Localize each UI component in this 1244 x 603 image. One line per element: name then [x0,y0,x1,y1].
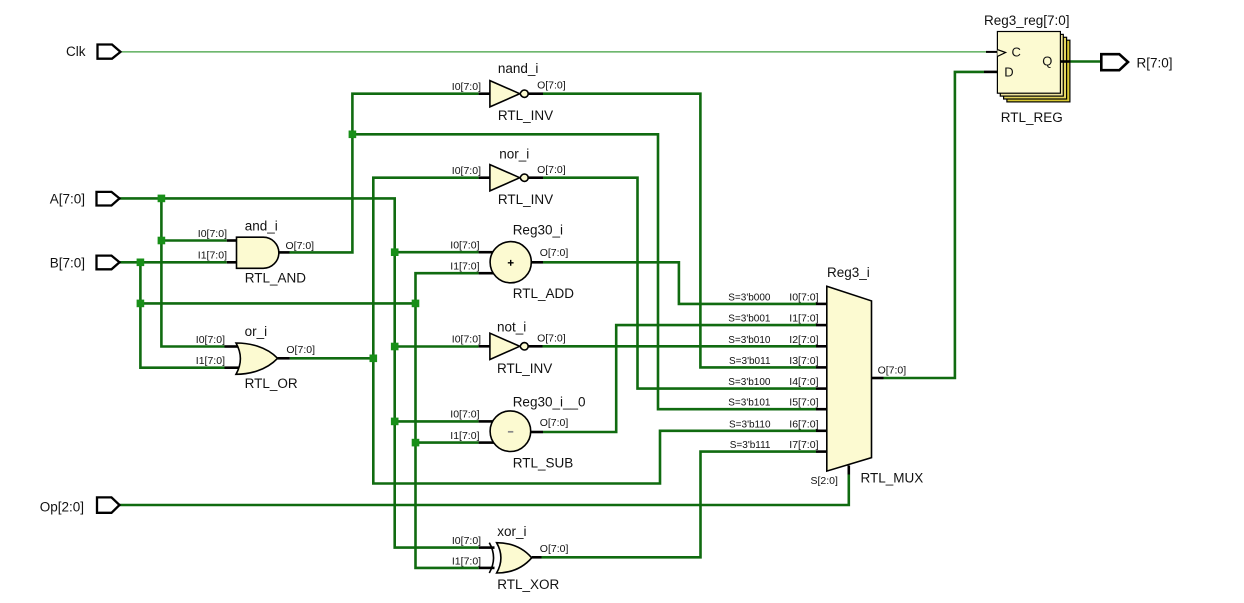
op-amp nand_i RTL_INV triangle [490,81,520,107]
wire register Q to port R [1070,60,1102,63]
svg-text:S=3'b000: S=3'b000 [728,292,771,303]
pin stub xor I0 [479,546,495,549]
svg-text:Reg3_reg[7:0]: Reg3_reg[7:0] [984,13,1070,28]
svg-text:S=3'b101: S=3'b101 [728,398,771,409]
subtractor Reg30_i__0 RTL_SUB circle [490,411,531,452]
svg-text:R[7:0]: R[7:0] [1137,55,1173,70]
svg-text:S=3'b011: S=3'b011 [729,356,771,367]
adder Reg30_i RTL_ADD circle [490,242,531,283]
pin stub not I0 [479,345,491,348]
svg-text:Clk: Clk [66,44,86,59]
pin stub reg Q [1060,60,1070,63]
wire sub output to mux I1 [543,325,816,432]
svg-text:I0[7:0]: I0[7:0] [198,228,227,240]
register RTL_REG main body [997,32,1060,94]
svg-text:I7[7:0]: I7[7:0] [789,439,818,451]
svg-text:RTL_INV: RTL_INV [498,108,553,123]
svg-text:I6[7:0]: I6[7:0] [789,418,818,430]
wire not output to mux I2 [543,345,817,348]
pin stub mux I6 [816,429,828,432]
pin stub mux S [847,466,850,475]
pin stub or O [278,357,290,360]
wire Op net to mux select [120,475,849,506]
svg-text:I1[7:0]: I1[7:0] [452,555,481,567]
svg-text:RTL_OR: RTL_OR [245,376,298,391]
svg-text:O[7:0]: O[7:0] [540,247,569,259]
register clock wedge [997,50,1005,57]
pin stub xor I1 [479,567,495,570]
svg-text:or_i: or_i [245,324,268,339]
node junction A x161 [158,195,166,203]
wire nor output to mux I4 [543,178,816,389]
wire A branch to and I0 [161,239,226,242]
svg-text:I3[7:0]: I3[7:0] [789,355,818,367]
svg-text:xor_i: xor_i [497,524,526,539]
svg-text:B[7:0]: B[7:0] [50,255,85,270]
port Clk [98,45,121,59]
svg-text:I1[7:0]: I1[7:0] [198,249,227,261]
pin stub sub O [531,431,544,434]
svg-text:I2[7:0]: I2[7:0] [789,334,818,346]
pin stub mux I5 [816,408,828,411]
port B[7:0] [97,256,120,270]
svg-text:S=3'b111: S=3'b111 [730,440,771,451]
svg-text:nor_i: nor_i [499,146,529,161]
wire Clk net [121,51,987,53]
pin stub mux I7 [816,450,828,453]
pin stub add I0 [479,251,494,254]
pin stub mux I3 [816,366,828,369]
svg-text:O[7:0]: O[7:0] [286,240,315,252]
pin stub nand I0 [479,92,491,95]
svg-text:RTL_MUX: RTL_MUX [861,470,924,485]
node junction sub I1 [412,439,420,447]
svg-text:RTL_AND: RTL_AND [245,270,307,285]
nand_i bubble [520,90,528,97]
svg-text:I0[7:0]: I0[7:0] [452,165,481,177]
svg-text:I1[7:0]: I1[7:0] [789,313,818,325]
wire A branch to not I0 [395,345,479,348]
pin stub mux I2 [816,345,828,348]
op-amp not_i RTL_INV triangle [490,333,520,359]
pin stub reg C [986,51,997,53]
svg-text:RTL_ADD: RTL_ADD [513,286,575,301]
pin stub sub I0 [479,420,494,423]
svg-text:I0[7:0]: I0[7:0] [452,81,481,93]
svg-text:I1[7:0]: I1[7:0] [450,261,479,273]
wire B net to and I1 [120,261,227,264]
wire B branch to sub I1 [416,441,479,444]
svg-text:I0[7:0]: I0[7:0] [452,535,481,547]
register stack layer 1 [1000,34,1063,96]
pin stub nor O [528,176,543,179]
node junction sub I0 [391,418,399,426]
pin stub and I0 [227,239,237,242]
svg-text:I1[7:0]: I1[7:0] [196,355,225,367]
pin stub nand O [528,92,543,95]
wire or net to nor input and mux I6 [373,178,816,484]
svg-text:A[7:0]: A[7:0] [50,192,85,207]
node junction B y303 [137,300,145,308]
wire A net trunk [120,198,479,547]
svg-text:I0[7:0]: I0[7:0] [450,409,479,421]
svg-text:S=3'b100: S=3'b100 [728,377,771,388]
wire add output to mux I0 [543,262,816,304]
svg-text:RTL_XOR: RTL_XOR [497,577,559,592]
register Reg3_reg[7:0] stack layer 3 [1007,40,1070,102]
svg-text:not_i: not_i [497,319,526,334]
pin stub nor I0 [479,176,491,179]
gate xor_i RTL_XOR body [497,543,532,573]
svg-text:I0[7:0]: I0[7:0] [450,240,479,252]
svg-text:I0[7:0]: I0[7:0] [196,334,225,346]
svg-text:S[2:0]: S[2:0] [811,475,839,487]
pin stub and I1 [227,261,237,264]
pin stub add I1 [479,272,494,275]
svg-text:Reg30_i__0: Reg30_i__0 [513,394,586,409]
nor_i bubble [520,174,528,181]
node junction or output [370,355,378,363]
wire and output branch to mux I5 [352,134,816,409]
port A[7:0] [97,192,120,206]
pin stub reg Q over stack [1060,60,1070,63]
node junction and I0 [158,237,166,245]
svg-text:S=3'b010: S=3'b010 [728,335,771,346]
wire or output [290,357,374,360]
pin stub reg D [984,71,997,74]
wire mux output to register D [884,72,985,378]
pin stub add O [531,261,544,264]
node junction and branch [349,131,357,139]
pin stub sub I1 [479,441,494,444]
svg-text:O[7:0]: O[7:0] [537,80,566,92]
mux Reg3_i RTL_MUX trapezoid [827,286,872,471]
node junction not I0 [391,343,399,351]
svg-text:D: D [1004,64,1013,79]
wire A branch to sub I0 [395,420,479,423]
svg-text:O[7:0]: O[7:0] [540,417,569,429]
gate and_i RTL_AND [237,237,279,268]
svg-text:Op[2:0]: Op[2:0] [40,500,84,515]
svg-text:I4[7:0]: I4[7:0] [789,376,818,388]
node junction B x140 [137,259,145,267]
wire xor output to mux I7 [542,452,817,558]
svg-text:I0[7:0]: I0[7:0] [452,334,481,346]
svg-text:I0[7:0]: I0[7:0] [789,291,818,303]
wire nand output to mux I3 [543,94,816,368]
pin stub or I0 [225,345,241,348]
gate xor_i input arc [489,543,493,573]
node junction add I0 [391,248,399,256]
svg-text:O[7:0]: O[7:0] [286,344,315,356]
port R[7:0] [1101,54,1128,70]
pin stub and O [279,251,290,254]
pin stub not O [528,345,542,348]
adder plus sign [508,260,514,266]
pin stub or I1 [225,366,241,369]
wire A branch vertical x161 [161,198,224,346]
svg-text:RTL_INV: RTL_INV [498,192,553,207]
svg-text:nand_i: nand_i [498,61,539,76]
svg-text:S=3'b110: S=3'b110 [729,419,771,430]
wire A branch to add I0 [395,251,479,254]
pin stub mux I0 [816,303,828,306]
svg-text:Reg3_i: Reg3_i [827,265,870,280]
gate or_i RTL_OR [236,343,278,374]
wire B branch vertical x140 to or I1 [140,262,224,367]
svg-text:O[7:0]: O[7:0] [537,164,566,176]
wire and output to nand input [290,94,479,253]
register stack layer 2 [1004,37,1067,99]
svg-text:RTL_INV: RTL_INV [497,361,552,376]
svg-text:RTL_SUB: RTL_SUB [513,456,574,471]
pin stub mux I1 [816,324,828,327]
pin stub xor O [532,556,542,559]
svg-text:Reg30_i: Reg30_i [513,222,563,237]
svg-text:O[7:0]: O[7:0] [540,543,569,555]
svg-text:S=3'b001: S=3'b001 [728,314,771,325]
pin stub mux I4 [816,387,828,390]
not_i bubble [520,343,528,350]
svg-text:Q: Q [1042,54,1052,69]
svg-text:O[7:0]: O[7:0] [537,333,566,345]
subtractor minus sign [508,431,513,433]
op-amp nor_i RTL_INV triangle [490,165,520,191]
svg-text:I5[7:0]: I5[7:0] [789,397,818,409]
svg-text:C: C [1012,45,1021,60]
wire B branch horizontal y303 [140,302,415,305]
svg-text:RTL_REG: RTL_REG [1001,110,1063,125]
node junction x415 y303 [412,300,420,308]
port Op[2:0] [97,497,120,512]
svg-text:I1[7:0]: I1[7:0] [450,430,479,442]
pin stub mux O [872,377,884,380]
svg-text:and_i: and_i [245,218,278,233]
svg-text:O[7:0]: O[7:0] [878,365,907,377]
wire B vertical x415 add I1 to xor I1 [416,273,479,568]
